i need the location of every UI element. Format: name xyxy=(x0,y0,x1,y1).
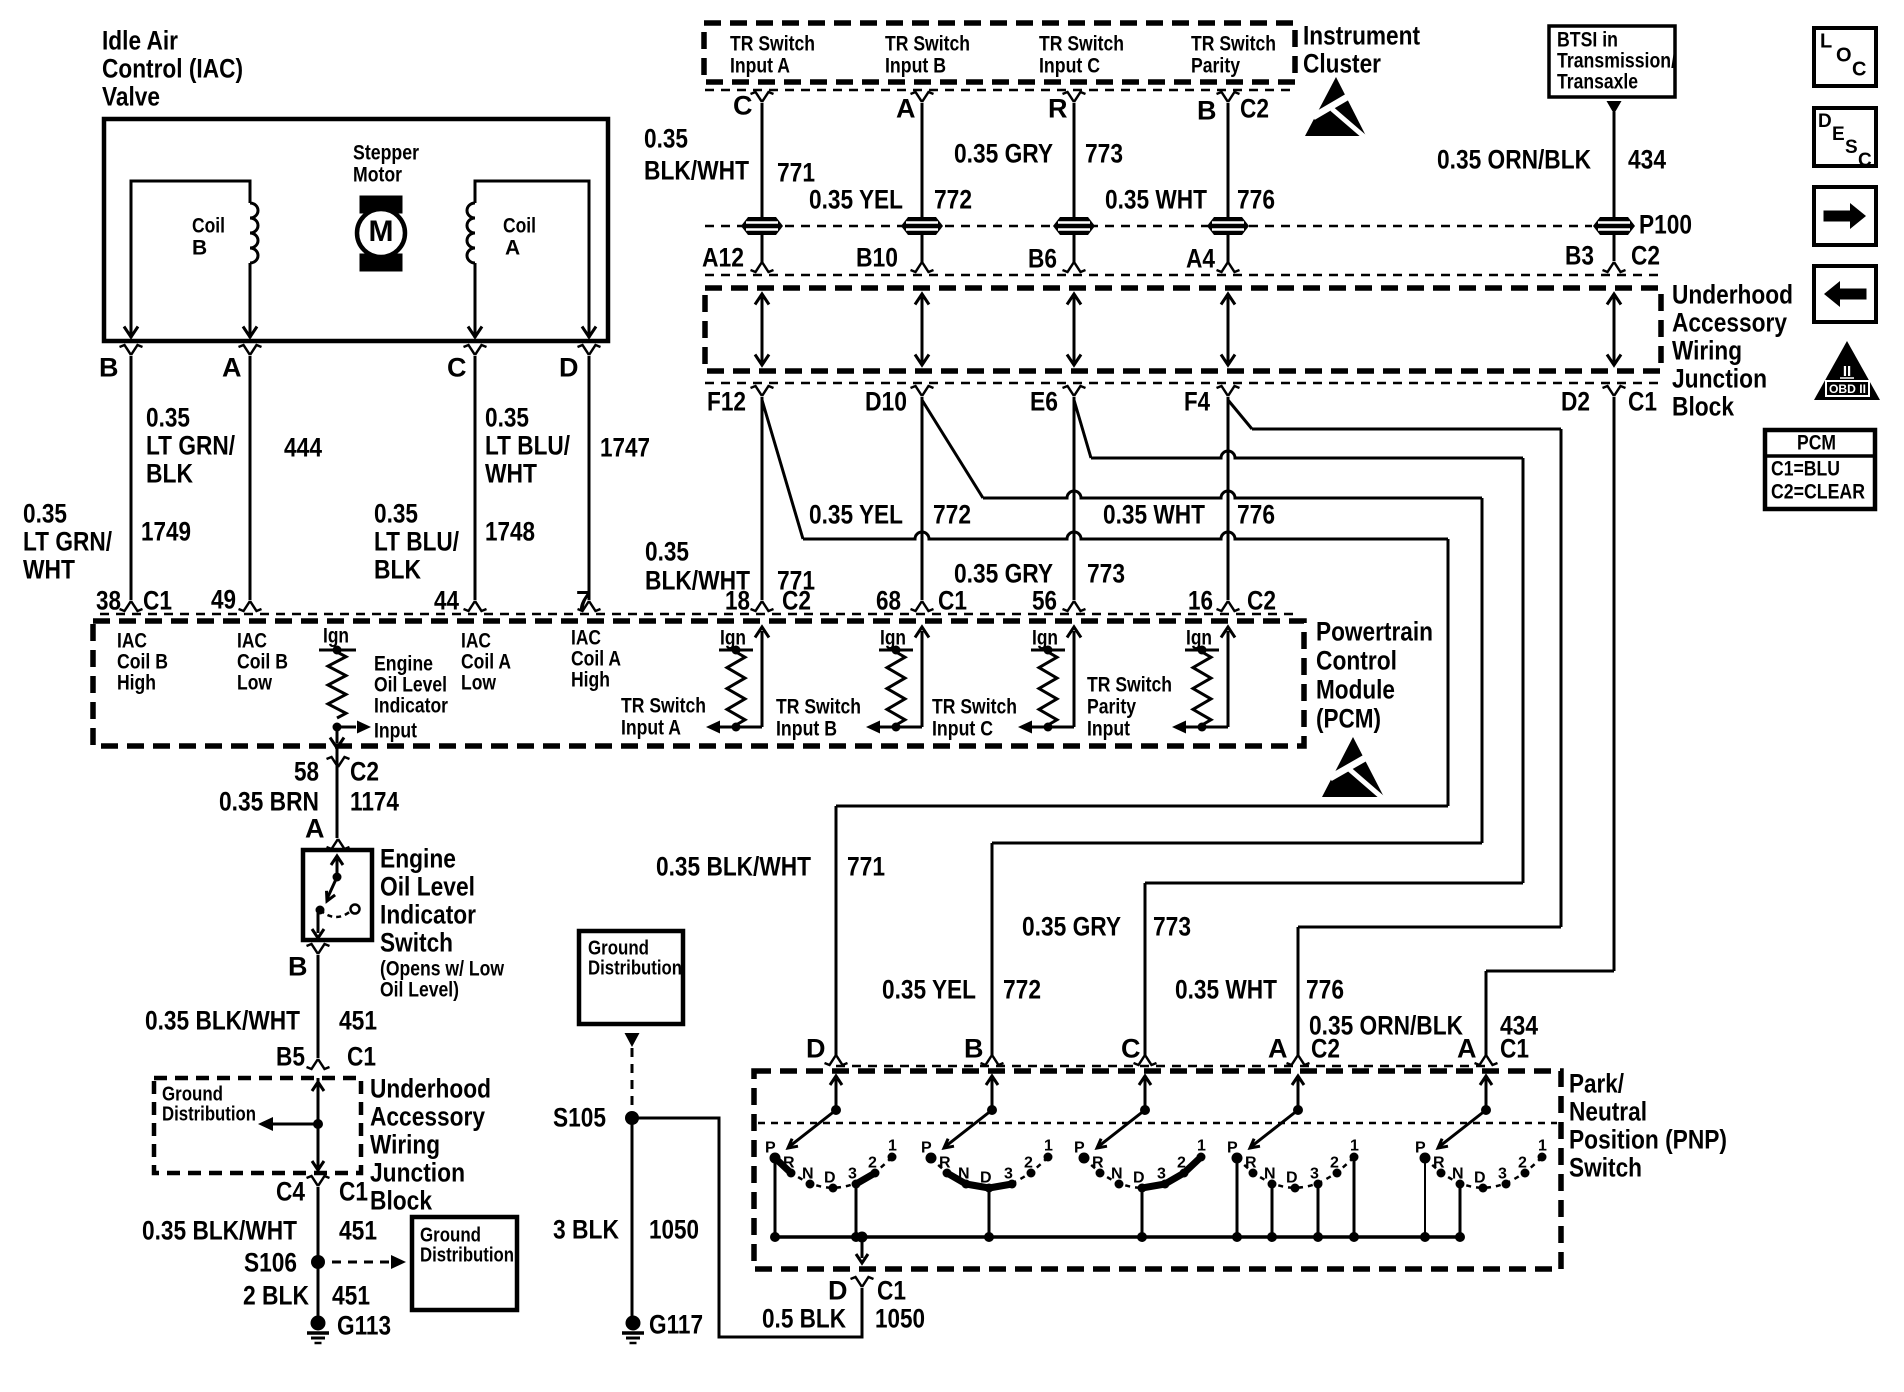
svg-text:Indicator: Indicator xyxy=(380,900,476,930)
svg-text:0.35 BLK/WHT: 0.35 BLK/WHT xyxy=(145,1006,300,1036)
label Engine Oil Level Indicator Switch xyxy=(380,844,505,1002)
svg-text:C1: C1 xyxy=(339,1177,368,1207)
svg-text:TR Switch: TR Switch xyxy=(730,32,815,55)
wire 776 WHT (F4 to PCM 16) xyxy=(1227,397,1230,600)
PCM engine oil level pull-up resistor (Ign) xyxy=(319,624,371,748)
svg-text:434: 434 xyxy=(1500,1011,1538,1041)
wire 772 branch to PNP (diagonal+staircase) xyxy=(922,400,983,498)
label 0.35 GRY 773 (top) xyxy=(954,139,1123,169)
svg-text:2: 2 xyxy=(1330,1155,1339,1172)
svg-text:Idle Air: Idle Air xyxy=(102,26,178,56)
svg-text:2 BLK: 2 BLK xyxy=(243,1281,309,1311)
svg-text:Wiring: Wiring xyxy=(1672,336,1742,366)
PNP switch wafer C (input C) xyxy=(1139,1076,1151,1085)
label 0.35 YEL 772 (top) xyxy=(809,185,972,215)
cluster pin C connector xyxy=(751,92,774,102)
svg-text:D: D xyxy=(1818,111,1832,132)
svg-text:772: 772 xyxy=(1003,975,1041,1005)
svg-text:1: 1 xyxy=(1538,1138,1547,1155)
svg-text:38: 38 xyxy=(96,586,121,616)
cluster pin B connector xyxy=(1217,92,1240,102)
svg-text:R: R xyxy=(939,1155,951,1172)
svg-text:LT GRN/: LT GRN/ xyxy=(23,527,112,557)
svg-text:0.35 GRY: 0.35 GRY xyxy=(954,139,1053,169)
svg-text:0.35 ORN/BLK: 0.35 ORN/BLK xyxy=(1309,1011,1463,1041)
PCM TR switch pull-up resistor (Ign) at x=896 xyxy=(866,626,929,733)
label: Idle Air Control (IAC) Valve xyxy=(102,26,243,112)
svg-text:Engine: Engine xyxy=(380,844,456,874)
svg-text:Distribution: Distribution xyxy=(162,1104,256,1126)
svg-text:Transaxle: Transaxle xyxy=(1557,70,1638,93)
svg-text:Low: Low xyxy=(461,671,497,694)
svg-text:D: D xyxy=(806,1034,826,1064)
svg-text:Oil Level): Oil Level) xyxy=(380,978,459,1001)
svg-text:0.35 WHT: 0.35 WHT xyxy=(1105,185,1207,215)
svg-text:F4: F4 xyxy=(1184,387,1210,417)
svg-text:Input C: Input C xyxy=(1039,54,1100,77)
svg-text:B: B xyxy=(192,236,207,259)
svg-text:E6: E6 xyxy=(1030,387,1058,417)
svg-text:Underhood: Underhood xyxy=(1672,280,1793,310)
label 0.35 GRY 773 (mid) xyxy=(954,559,1125,589)
PCM label TR Switch Parity Input xyxy=(1087,673,1172,740)
coil B of IAC valve xyxy=(124,181,258,338)
svg-text:Coil A: Coil A xyxy=(571,647,621,670)
PCM connector dashed line xyxy=(100,613,1300,616)
svg-text:G113: G113 xyxy=(337,1311,391,1341)
PNP ground bus xyxy=(775,1235,1461,1239)
junction block pass-through arrow (451) xyxy=(317,1078,320,1173)
pin labels C4 C1 xyxy=(307,1176,330,1186)
BTSI in Transmission/Transaxle box xyxy=(1549,26,1675,97)
ground distribution reference dashed box (junction block) xyxy=(154,1078,361,1173)
junction block pass-through arrow at x=762 xyxy=(761,297,764,362)
svg-text:F12: F12 xyxy=(707,387,746,417)
PCM TR switch pull-up resistor (Ign) at x=1202 xyxy=(1172,626,1235,733)
svg-text:Input C: Input C xyxy=(932,717,993,740)
junction block pass-through arrow at x=1228 xyxy=(1227,297,1230,362)
svg-text:C1: C1 xyxy=(1628,387,1657,417)
svg-text:451: 451 xyxy=(339,1006,377,1036)
pass-through connector dashed line P100 xyxy=(705,225,1592,228)
svg-text:N: N xyxy=(1111,1166,1123,1183)
cluster pin A connector xyxy=(911,92,934,102)
svg-text:A: A xyxy=(896,94,916,124)
label 0.35 YEL 772 (mid) xyxy=(809,500,971,530)
ground distribution arrow down xyxy=(625,1033,640,1047)
svg-text:Distribution: Distribution xyxy=(420,1245,514,1267)
svg-text:Parity: Parity xyxy=(1191,54,1240,77)
svg-text:B: B xyxy=(964,1034,984,1064)
svg-text:C1: C1 xyxy=(347,1042,376,1072)
svg-text:0.35 GRY: 0.35 GRY xyxy=(1022,912,1121,942)
svg-text:C2: C2 xyxy=(782,586,811,616)
svg-text:58: 58 xyxy=(294,757,319,787)
svg-text:C: C xyxy=(1121,1034,1141,1064)
svg-text:BLK/WHT: BLK/WHT xyxy=(644,156,749,186)
svg-text:1050: 1050 xyxy=(875,1304,925,1334)
svg-text:Control: Control xyxy=(1316,646,1397,676)
svg-text:TR Switch: TR Switch xyxy=(932,695,1017,718)
svg-text:0.35: 0.35 xyxy=(485,403,529,433)
grommet P100 at wire 772 xyxy=(901,217,943,235)
svg-text:TR Switch: TR Switch xyxy=(621,694,706,717)
label 0.35 BLK/WHT 771 (mid) xyxy=(645,537,815,596)
svg-text:B5: B5 xyxy=(276,1042,305,1072)
svg-text:2: 2 xyxy=(868,1155,877,1172)
engine oil level indicator switch box xyxy=(303,850,372,940)
svg-text:Low: Low xyxy=(237,671,273,694)
svg-text:776: 776 xyxy=(1237,185,1275,215)
coil A of IAC valve xyxy=(467,181,596,338)
svg-text:1748: 1748 xyxy=(485,517,535,547)
svg-text:1174: 1174 xyxy=(350,787,399,817)
PNP bottom wire labels xyxy=(656,852,1538,1041)
pin E6 connector xyxy=(1063,386,1086,396)
PCM label TR Switch Input B xyxy=(776,695,861,740)
svg-text:Accessory: Accessory xyxy=(370,1102,485,1132)
svg-text:C1: C1 xyxy=(877,1276,906,1306)
svg-text:451: 451 xyxy=(339,1216,377,1246)
PNP switch wafer D (input D) xyxy=(830,1076,842,1085)
svg-text:773: 773 xyxy=(1087,559,1125,589)
svg-text:BTSI in: BTSI in xyxy=(1557,28,1618,51)
svg-text:Input B: Input B xyxy=(776,717,837,740)
svg-text:(Opens w/ Low: (Opens w/ Low xyxy=(380,957,505,980)
wire 776 WHT (cluster B to A4) xyxy=(1227,103,1230,217)
svg-text:LT BLU/: LT BLU/ xyxy=(485,431,570,461)
svg-text:M: M xyxy=(369,215,394,248)
svg-text:18: 18 xyxy=(725,586,750,616)
svg-text:B: B xyxy=(288,952,308,982)
wire 771 BLK/WHT (F12 to PCM 18) xyxy=(761,397,764,600)
svg-text:Switch: Switch xyxy=(1569,1153,1642,1183)
svg-text:1: 1 xyxy=(1350,1138,1359,1155)
svg-text:0.35 BRN: 0.35 BRN xyxy=(219,787,319,817)
wire 1749 LT GRN/WHT (IAC B to PCM 38) xyxy=(130,356,133,600)
svg-text:Indicator: Indicator xyxy=(374,694,448,717)
svg-text:Coil B: Coil B xyxy=(117,650,168,673)
svg-text:C2: C2 xyxy=(350,757,379,787)
svg-text:D: D xyxy=(559,353,579,383)
svg-text:S: S xyxy=(1845,137,1858,158)
svg-text:Motor: Motor xyxy=(353,163,402,186)
svg-text:C1=BLU: C1=BLU xyxy=(1771,457,1840,480)
wire 772 YEL (D10 to PCM 68) xyxy=(921,397,924,600)
svg-text:D2: D2 xyxy=(1561,387,1590,417)
label 0.35 LT GRN/BLK 444 xyxy=(146,403,322,489)
pin labels D C1 and 0.5 BLK 1050 xyxy=(851,1277,874,1287)
svg-text:C2: C2 xyxy=(1240,94,1269,124)
OBD II icon xyxy=(1814,341,1880,400)
svg-text:0.35: 0.35 xyxy=(374,499,418,529)
description icon DESC xyxy=(1814,108,1876,166)
PNP input connectors xyxy=(825,1055,848,1065)
label 0.35 LT BLU/WHT 1747 xyxy=(485,403,650,489)
svg-text:0.35 BLK/WHT: 0.35 BLK/WHT xyxy=(142,1216,297,1246)
svg-text:B6: B6 xyxy=(1028,244,1057,274)
junction block pass-through arrow at x=1074 xyxy=(1073,297,1076,362)
svg-text:C4: C4 xyxy=(276,1177,305,1207)
label 0.35 LT BLU/BLK 1748 xyxy=(374,499,535,585)
dashed wire to S105 xyxy=(631,1048,634,1112)
forward arrow icon xyxy=(1814,187,1876,245)
svg-text:Transmission/: Transmission/ xyxy=(1557,49,1676,72)
svg-text:Stepper: Stepper xyxy=(353,141,419,164)
wire 434 ORN/BLK (BTSI to P100 B3) xyxy=(1607,101,1622,114)
svg-text:773: 773 xyxy=(1085,139,1123,169)
svg-text:434: 434 xyxy=(1628,145,1666,175)
grommet P100 at wire 771 xyxy=(741,217,783,235)
svg-text:A12: A12 xyxy=(702,243,744,273)
svg-text:0.35 WHT: 0.35 WHT xyxy=(1103,500,1205,530)
svg-text:D: D xyxy=(828,1276,848,1306)
wire 451 BLK/WHT (oil switch B to junction block B5) xyxy=(317,955,320,1058)
PCM input label IAC Coil A Low xyxy=(461,629,511,694)
pin F12 connector xyxy=(751,386,774,396)
svg-text:1747: 1747 xyxy=(600,433,650,463)
wire 444 LT GRN/BLK (IAC A to PCM 49) xyxy=(249,356,252,600)
svg-text:1: 1 xyxy=(1044,1138,1053,1155)
label Powertrain Control Module (PCM) xyxy=(1316,617,1433,734)
svg-text:C: C xyxy=(733,91,753,121)
svg-text:B3: B3 xyxy=(1565,241,1594,271)
wire 1747 LT BLU/WHT (IAC D to PCM 7) xyxy=(588,356,591,600)
svg-text:Accessory: Accessory xyxy=(1672,308,1787,338)
svg-text:Cluster: Cluster xyxy=(1303,49,1381,79)
svg-text:1: 1 xyxy=(1197,1138,1206,1155)
svg-text:Valve: Valve xyxy=(102,82,160,112)
svg-text:Ign: Ign xyxy=(880,626,906,649)
svg-text:0.35 YEL: 0.35 YEL xyxy=(809,185,903,215)
PNP switch wafer B (input B) xyxy=(986,1076,998,1085)
svg-text:TR Switch: TR Switch xyxy=(1191,32,1276,55)
IAC pin A connector xyxy=(239,345,262,355)
svg-text:1: 1 xyxy=(888,1138,897,1155)
svg-text:0.35 BLK/WHT: 0.35 BLK/WHT xyxy=(656,852,811,882)
svg-text:Ign: Ign xyxy=(1032,626,1058,649)
svg-text:R: R xyxy=(1048,94,1068,124)
svg-text:Block: Block xyxy=(370,1186,433,1216)
svg-text:Ign: Ign xyxy=(720,626,746,649)
svg-text:3: 3 xyxy=(848,1166,857,1183)
svg-text:WHT: WHT xyxy=(485,459,537,489)
PCM TR switch pull-up resistor (Ign) at x=736 xyxy=(706,626,769,733)
splice S105 xyxy=(625,1111,639,1125)
svg-text:Ign: Ign xyxy=(1186,626,1212,649)
wire 771 branch to PNP (diagonal+staircase) xyxy=(762,400,803,539)
svg-text:Switch: Switch xyxy=(380,928,453,958)
svg-text:P: P xyxy=(1074,1140,1085,1157)
svg-text:Position (PNP): Position (PNP) xyxy=(1569,1125,1727,1155)
svg-text:Block: Block xyxy=(1672,392,1735,422)
svg-text:High: High xyxy=(571,668,610,691)
svg-text:D: D xyxy=(1133,1170,1145,1187)
svg-text:TR Switch: TR Switch xyxy=(885,32,970,55)
label Ground Distribution (dashed box) xyxy=(162,1084,256,1126)
svg-text:0.35 GRY: 0.35 GRY xyxy=(954,559,1053,589)
svg-text:Powertrain: Powertrain xyxy=(1316,617,1433,647)
PCM input label IAC Coil B High xyxy=(117,629,168,694)
label Underhood Accessory Wiring Junction Block (right) xyxy=(1672,280,1793,422)
svg-text:Ground: Ground xyxy=(162,1084,223,1106)
svg-text:N: N xyxy=(1452,1166,1464,1183)
PNP switch wafer A-C1 (input A) xyxy=(1480,1076,1492,1085)
svg-text:0.35 WHT: 0.35 WHT xyxy=(1175,975,1277,1005)
junction block pass-through arrow at x=922 xyxy=(921,297,924,362)
wire 1174 BRN (PCM 58 to oil switch A) xyxy=(336,746,339,838)
svg-text:A4: A4 xyxy=(1186,244,1215,274)
svg-text:68: 68 xyxy=(876,586,901,616)
svg-text:TR Switch: TR Switch xyxy=(1039,32,1124,55)
svg-text:O: O xyxy=(1836,45,1852,67)
svg-text:PCM: PCM xyxy=(1797,431,1836,454)
svg-text:S105: S105 xyxy=(553,1103,606,1133)
svg-text:IAC: IAC xyxy=(237,629,267,652)
svg-text:R: R xyxy=(1433,1155,1445,1172)
svg-text:R: R xyxy=(1245,1155,1257,1172)
pin D10 connector xyxy=(911,386,934,396)
svg-text:WHT: WHT xyxy=(23,555,75,585)
svg-text:0.5 BLK: 0.5 BLK xyxy=(762,1304,846,1334)
svg-text:Neutral: Neutral xyxy=(1569,1097,1647,1127)
junction block pass-through arrow at x=1614 xyxy=(1613,297,1616,362)
svg-text:Coil: Coil xyxy=(503,214,536,237)
svg-text:3: 3 xyxy=(1498,1166,1507,1183)
svg-text:776: 776 xyxy=(1237,500,1275,530)
svg-text:451: 451 xyxy=(332,1281,370,1311)
svg-text:Underhood: Underhood xyxy=(370,1074,491,1104)
svg-text:C: C xyxy=(447,353,467,383)
svg-text:Park/: Park/ xyxy=(1569,1069,1624,1099)
svg-text:D: D xyxy=(1286,1170,1298,1187)
svg-text:LT GRN/: LT GRN/ xyxy=(146,431,235,461)
svg-text:56: 56 xyxy=(1032,586,1057,616)
cluster pin R connector xyxy=(1063,92,1086,102)
label 0.35 BLK/WHT 771 (top) xyxy=(644,124,815,188)
cluster output label Parity xyxy=(1191,32,1276,77)
svg-text:B: B xyxy=(1197,96,1217,126)
powertrain control module dashed box xyxy=(93,621,1304,746)
svg-text:Distribution: Distribution xyxy=(588,958,682,980)
wire 1748 LT BLU/BLK (IAC C to PCM 44) xyxy=(474,356,477,600)
svg-text:771: 771 xyxy=(777,158,815,188)
svg-text:Control (IAC): Control (IAC) xyxy=(102,54,243,84)
cluster output label Input A xyxy=(730,32,815,77)
svg-text:Ground: Ground xyxy=(588,938,649,960)
PCM input label IAC Coil A High xyxy=(571,626,621,691)
instrument cluster dashed box xyxy=(704,23,1295,82)
svg-text:IAC: IAC xyxy=(571,626,601,649)
cluster output label Input B xyxy=(885,32,970,77)
label Park/Neutral Position (PNP) Switch xyxy=(1569,1069,1727,1183)
wire 773 branch to PNP (diagonal+staircase) xyxy=(1074,400,1091,458)
svg-text:S106: S106 xyxy=(244,1248,297,1278)
svg-text:Parity: Parity xyxy=(1087,695,1136,718)
svg-text:D10: D10 xyxy=(865,387,907,417)
svg-text:Oil Level: Oil Level xyxy=(380,872,475,902)
wire 773 GRY (E6 to PCM 56) xyxy=(1073,397,1076,600)
svg-text:C1: C1 xyxy=(938,586,967,616)
ground G113 xyxy=(311,1316,326,1331)
svg-text:G117: G117 xyxy=(649,1310,703,1340)
svg-text:L: L xyxy=(1820,31,1832,53)
svg-text:Coil B: Coil B xyxy=(237,650,288,673)
locator icon LOC xyxy=(1814,28,1876,86)
svg-text:B10: B10 xyxy=(856,243,898,273)
ground distribution box (S105) xyxy=(579,931,683,1024)
svg-text:OBD II: OBD II xyxy=(1829,384,1866,396)
stepper motor M xyxy=(353,141,419,271)
svg-text:C2: C2 xyxy=(1631,241,1660,271)
svg-text:C: C xyxy=(1858,150,1872,171)
label Underhood Accessory Wiring Junction Block (left) xyxy=(370,1074,491,1216)
svg-text:772: 772 xyxy=(934,185,972,215)
svg-text:2: 2 xyxy=(1518,1155,1527,1172)
IAC pin B connector xyxy=(120,345,143,355)
svg-text:Oil Level: Oil Level xyxy=(374,673,447,696)
underhood accessory wiring junction block dashed box xyxy=(705,288,1661,371)
label 0.35 WHT 776 (top) xyxy=(1105,185,1275,215)
svg-text:7: 7 xyxy=(576,586,591,616)
svg-text:A: A xyxy=(1268,1034,1288,1064)
svg-text:Coil: Coil xyxy=(192,214,225,237)
S106 dashed arrow to ground distribution xyxy=(332,1261,392,1264)
svg-text:D: D xyxy=(1474,1170,1486,1187)
svg-text:776: 776 xyxy=(1306,975,1344,1005)
svg-text:0.35 YEL: 0.35 YEL xyxy=(809,500,903,530)
svg-text:444: 444 xyxy=(284,433,322,463)
svg-text:0.35 ORN/BLK: 0.35 ORN/BLK xyxy=(1437,145,1591,175)
svg-text:A: A xyxy=(505,236,520,259)
grommet P100 at wire 776 xyxy=(1207,217,1249,235)
svg-text:E: E xyxy=(1832,124,1845,145)
cluster connector dashed line xyxy=(705,89,1295,92)
PCM pin labels 38 C1 49 44 7 xyxy=(96,585,591,616)
wire 434 ORN/BLK (D2 to PNP A C1) xyxy=(1613,397,1616,971)
svg-text:P: P xyxy=(921,1140,932,1157)
svg-text:N: N xyxy=(802,1166,814,1183)
ground distribution branch arrow xyxy=(258,1117,273,1131)
PCM label TR Switch Input C xyxy=(932,695,1017,740)
svg-text:3 BLK: 3 BLK xyxy=(553,1215,619,1245)
wire 451 BLK/WHT (C4 to G113) xyxy=(317,1187,320,1320)
splice S106 xyxy=(311,1255,325,1269)
wire 772 YEL (cluster A to B10) xyxy=(921,103,924,217)
svg-text:P100: P100 xyxy=(1639,210,1692,240)
pin label B xyxy=(307,944,330,954)
ESD sensitive device symbol (PCM) xyxy=(1322,737,1384,797)
svg-text:Wiring: Wiring xyxy=(370,1130,440,1160)
svg-text:IAC: IAC xyxy=(117,629,147,652)
svg-text:BLK: BLK xyxy=(374,555,421,585)
PCM TR switch pull-up resistor (Ign) at x=1048 xyxy=(1018,626,1081,733)
svg-text:Junction: Junction xyxy=(370,1158,465,1188)
PCM connector color legend xyxy=(1765,430,1875,509)
svg-text:P: P xyxy=(1415,1140,1426,1157)
grommet P100 at wire 434 xyxy=(1593,217,1635,235)
svg-text:High: High xyxy=(117,671,156,694)
svg-text:771: 771 xyxy=(847,852,885,882)
wire 771 BLK/WHT (cluster C to A12) xyxy=(761,103,764,217)
ground G117 xyxy=(626,1316,641,1331)
svg-text:0.35: 0.35 xyxy=(146,403,190,433)
wire 1050 BLK (S105 to PNP D) xyxy=(632,1118,862,1337)
PNP switch wafer A-C2 (input A) xyxy=(1292,1076,1304,1085)
svg-text:0.35: 0.35 xyxy=(644,124,688,154)
svg-text:Input A: Input A xyxy=(621,716,681,739)
svg-text:Junction: Junction xyxy=(1672,364,1767,394)
